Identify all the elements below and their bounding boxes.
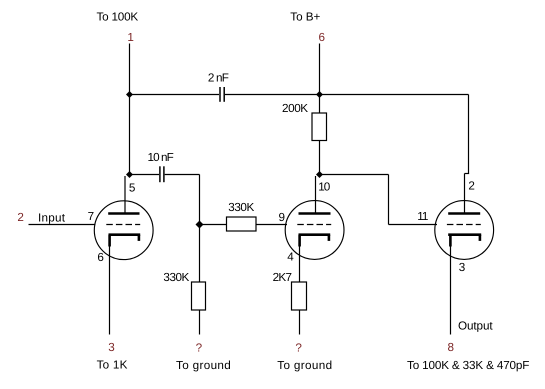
wire input: [29, 224, 96, 226]
wire C1 right plate to top-right corner: [225, 94, 469, 96]
svg-text:9: 9: [279, 211, 286, 224]
triode V1 envelope: [94, 201, 153, 260]
wire node D to C2 left plate: [130, 174, 160, 176]
wire R1 bottom to node C: [319, 141, 321, 175]
triode V1 plate: [108, 212, 139, 215]
wire node B down to R1 top: [319, 95, 321, 114]
triode V3 envelope: [435, 201, 494, 260]
triode V3 grid (dashed): [447, 224, 481, 226]
wire node A to C1 left plate: [130, 94, 220, 96]
svg-text:1: 1: [127, 31, 134, 44]
svg-text:To ground: To ground: [176, 359, 231, 372]
wire jog left: [465, 173, 470, 175]
svg-text:3: 3: [108, 341, 115, 354]
wire plate pin V1: [124, 176, 126, 214]
wire node A down to node D: [129, 95, 131, 175]
wire C2 right plate to corner: [165, 174, 200, 176]
wire corner down to node E: [199, 175, 201, 225]
wire node C to right corner: [320, 174, 389, 176]
wire cathode V2 down to R4 top: [299, 246, 301, 282]
capacitor C2 10 nF: [160, 166, 164, 182]
svg-text:200K: 200K: [282, 102, 308, 115]
svg-text:?: ?: [295, 341, 302, 354]
wire R3 bottom down: [199, 310, 201, 335]
svg-text:Input: Input: [38, 212, 66, 225]
wire node E down to R3 top: [199, 225, 201, 283]
junction node A: [126, 91, 133, 98]
wire terminal 1 down to node A: [129, 44, 131, 95]
svg-text:Output: Output: [458, 320, 493, 333]
junction node B: [316, 91, 323, 98]
triode V2 plate: [299, 212, 331, 215]
junction node C: [316, 171, 323, 178]
junction node E: [196, 221, 204, 229]
wire right side down to jog: [468, 95, 470, 174]
triode V1 cathode: [109, 235, 141, 247]
wire cathode V3 down to output terminal: [450, 246, 452, 335]
svg-text:?: ?: [196, 341, 203, 354]
svg-text:11: 11: [417, 210, 428, 223]
svg-text:2 nF: 2 nF: [208, 71, 229, 84]
triode V2 envelope: [285, 201, 344, 260]
svg-text:4: 4: [287, 251, 294, 264]
resistor R1 200K: [312, 113, 327, 141]
resistor R3 330K vertical: [192, 282, 206, 310]
wire R2 right to grid V2: [256, 224, 287, 226]
svg-text:To 1K: To 1K: [97, 359, 128, 372]
svg-text:10 nF: 10 nF: [148, 151, 174, 164]
svg-text:6: 6: [318, 31, 325, 44]
wire node E to R2 left: [200, 224, 227, 226]
svg-text:To ground: To ground: [277, 359, 332, 372]
wire R4 bottom down: [299, 310, 301, 335]
svg-text:To 100K & 33K & 470pF: To 100K & 33K & 470pF: [407, 359, 529, 372]
wire corner down: [388, 175, 390, 225]
svg-text:8: 8: [448, 341, 455, 354]
svg-text:To 100K: To 100K: [97, 10, 139, 23]
svg-text:To B+: To B+: [290, 10, 320, 23]
wire to grid V3: [389, 224, 438, 226]
triode V1 grid (dashed): [106, 224, 140, 226]
svg-text:330K: 330K: [228, 201, 254, 214]
svg-text:2K7: 2K7: [273, 271, 292, 284]
svg-text:6: 6: [97, 251, 104, 264]
resistor R4 2K7: [292, 282, 307, 310]
triode V3 plate: [448, 212, 480, 215]
svg-text:10: 10: [318, 180, 331, 193]
svg-text:330K: 330K: [163, 271, 189, 284]
wire cathode V1 down to terminal 3: [109, 246, 111, 335]
capacitor C1 2 nF: [220, 87, 224, 102]
svg-text:5: 5: [129, 181, 136, 194]
wire terminal 6 down to node B: [319, 44, 321, 95]
svg-text:7: 7: [88, 210, 95, 223]
wire plate pin V3: [464, 174, 466, 215]
svg-text:2: 2: [17, 211, 24, 224]
triode V2 grid (dashed): [297, 224, 331, 226]
resistor R2 330K horizontal: [227, 217, 257, 231]
triode V3 cathode: [448, 235, 481, 247]
junction node D (plate node V1): [126, 171, 133, 178]
svg-text:3: 3: [459, 261, 466, 274]
svg-text:2: 2: [468, 180, 475, 193]
triode V2 cathode: [299, 235, 331, 247]
wire plate pin V2: [315, 176, 317, 214]
